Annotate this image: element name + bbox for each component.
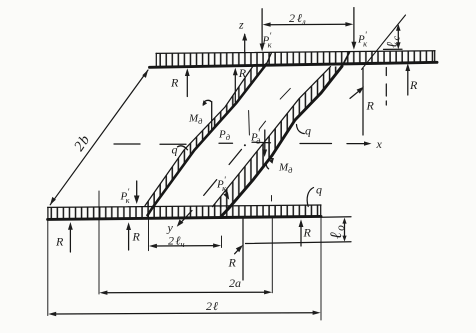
reaction R at rib 1 bottom (126, 222, 140, 250)
svg-text:y: y (167, 221, 174, 235)
reaction R front edge right (299, 219, 312, 246)
load label q at front edge (307, 183, 322, 207)
svg-text:Р'к: Р'к (216, 175, 227, 193)
svg-text:R: R (238, 66, 247, 80)
svg-text:R: R (303, 226, 312, 240)
force P_d on rib 1 (218, 129, 231, 143)
y axis (167, 88, 291, 234)
reaction R at rib 2 top (350, 68, 375, 135)
svg-text:q: q (305, 124, 311, 138)
plate back edge (150, 62, 438, 67)
svg-text:x: x (376, 137, 383, 151)
z axis (238, 18, 247, 54)
rib 1 line (148, 53, 272, 216)
svg-text:R: R (170, 76, 179, 90)
distributed load q strip on front edge (48, 205, 321, 219)
reaction R at rib 2 bottom (228, 219, 244, 280)
reaction R back edge left (170, 68, 190, 96)
distributed load q strip on rib 1 (145, 64, 267, 208)
dimension l_c with rib 2 extension line (362, 15, 406, 105)
dimension 2l_ch (149, 215, 222, 251)
z axis hidden dash (248, 111, 251, 136)
svg-text:q: q (316, 183, 322, 197)
force P'k at rib 2 bottom (216, 175, 229, 200)
reaction R front edge left (55, 222, 73, 252)
svg-text:Р'к: Р'к (120, 187, 131, 205)
dimension 2l_l (263, 11, 354, 27)
force P'k at rib 1 top (260, 9, 273, 52)
force P'_d on rib 2 (250, 128, 271, 157)
dimension 2a (99, 191, 272, 295)
svg-text:Р'д: Р'д (250, 128, 261, 146)
svg-text:2a: 2a (229, 276, 241, 290)
reaction R at rib 1 top (233, 66, 247, 102)
svg-text:R: R (228, 256, 237, 270)
x axis (114, 137, 383, 151)
moment M_d on rib 2 (266, 158, 293, 175)
dimension 2l (48, 217, 321, 321)
plate front edge (48, 216, 321, 219)
force P'k at rib 2 top (351, 8, 368, 50)
distributed load q strip on back edge (156, 51, 435, 67)
reaction R back edge right (405, 63, 418, 95)
svg-text:R: R (132, 230, 141, 244)
moment M_d on rib 1 (188, 100, 212, 129)
svg-text:R: R (366, 99, 375, 113)
svg-text:q: q (172, 143, 178, 157)
rib 2 line (221, 52, 350, 216)
distributed load q strip on rib 2 (213, 66, 343, 208)
svg-text:z: z (238, 18, 244, 32)
svg-text:R: R (409, 78, 418, 92)
dimension l_o (246, 217, 352, 244)
left edge / dimension 2b (50, 70, 148, 205)
force P'k at rib 1 bottom (120, 181, 140, 205)
svg-text:R: R (55, 235, 64, 249)
load label q at rib 1 (172, 143, 188, 157)
load label q at rib 2 (297, 124, 312, 138)
